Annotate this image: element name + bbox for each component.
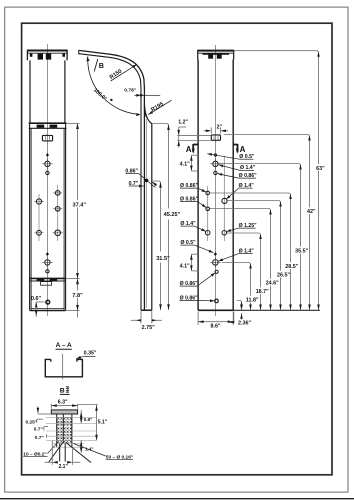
dim 4.1 upper (191, 155, 198, 171)
dim 2.36 (229, 312, 242, 323)
svg-text:26.5": 26.5" (277, 272, 290, 278)
rear cap tabs (203, 53, 230, 55)
callout D0.86 right (218, 173, 258, 179)
dim 2.1 (45, 441, 81, 465)
svg-text:4.1": 4.1" (180, 162, 190, 168)
rear hole left 2 (206, 207, 210, 211)
front hole small (46, 171, 49, 174)
front hole crosshair low (42, 257, 52, 267)
rear diamond (214, 252, 217, 256)
dim 2.75 below side view (131, 311, 162, 324)
side S-bend R195 to channel (144, 104, 151, 310)
svg-text:45.25": 45.25" (164, 212, 181, 218)
svg-text:A: A (186, 145, 192, 154)
angle arc 100 deg (88, 57, 140, 115)
svg-text:4.1": 4.1" (180, 264, 190, 270)
side hidden centerline (145, 119, 147, 308)
ordinate arrows at baseline (240, 305, 320, 311)
callout D0.86 left 1 (180, 183, 206, 192)
front hole right 2 (53, 207, 62, 212)
svg-text:0.78": 0.78" (124, 88, 136, 94)
inner border frame (22, 23, 332, 475)
svg-text:2.36": 2.36" (238, 321, 251, 327)
svg-text:63": 63" (316, 166, 325, 172)
front pole body edges (30, 60, 65, 123)
A-A channel outline (45, 359, 82, 376)
side view bottom edge (141, 309, 152, 311)
dim 0.6 (36, 302, 44, 317)
dim 6.3 (51, 404, 77, 409)
side arm outline (79, 50, 152, 310)
svg-text:0.25": 0.25" (26, 419, 38, 425)
callout D0.5 right top (207, 154, 255, 160)
rear cap (198, 50, 234, 59)
B plate (51, 410, 77, 414)
B body verticals (57, 414, 72, 447)
rear hole small low (215, 270, 218, 273)
front view centerline (46, 44, 48, 316)
front bottom notch (37, 279, 45, 281)
svg-text:2.1": 2.1" (59, 464, 69, 470)
R150 leader arrow (111, 64, 137, 81)
dim 4.1 lower (191, 254, 198, 271)
svg-text:11.8": 11.8" (246, 298, 259, 304)
R150 label (109, 69, 123, 81)
front hole small low (46, 270, 49, 273)
svg-text:5.1": 5.1" (98, 420, 108, 426)
svg-text:0.6": 0.6" (31, 296, 41, 302)
callout D0.86 left 4 (180, 295, 215, 301)
section A-A cut marks (193, 144, 237, 152)
svg-text:42": 42" (307, 209, 316, 215)
front hole column centerlines (38, 194, 40, 241)
B left dim labels (37, 406, 51, 438)
rear hole crosshair 1 (210, 159, 220, 169)
callout D1.4 left (180, 221, 206, 232)
callout D1.4 right 1 (219, 165, 256, 171)
rear slot (211, 135, 220, 140)
B leader from 10-D label (48, 442, 59, 454)
callout D1.25 right (226, 223, 257, 232)
svg-text:8.6": 8.6" (211, 323, 221, 329)
rear hole left 1 (206, 191, 210, 195)
callout D1.4 right low (218, 248, 254, 261)
front hole small diamond top (46, 153, 49, 157)
svg-text:2.75": 2.75" (142, 325, 155, 331)
front bracket top band (29, 123, 67, 128)
R195 leader arrow (148, 100, 171, 114)
dim 2 slot (204, 127, 229, 133)
front cap tabs (38, 54, 43, 60)
side hole dot (145, 179, 149, 183)
dim 0.78 top (124, 88, 160, 96)
callout D0.5 left (180, 240, 213, 253)
front hole left 1 (34, 199, 44, 204)
rear centerline (214, 45, 216, 316)
rear pole body (198, 59, 233, 310)
ordinate hook dots (240, 51, 320, 306)
dim 45.25 (152, 124, 169, 311)
label B with arrow (94, 59, 104, 72)
dim 1.2 slot height (177, 127, 211, 148)
dim 8.6 below rear (198, 312, 233, 326)
svg-text:18.7": 18.7" (256, 289, 269, 295)
callout D0.86 left 3 (180, 273, 216, 287)
rear hole small 1 (214, 171, 217, 174)
svg-text:7.8": 7.8" (72, 293, 83, 299)
B gray ext lines (46, 417, 97, 447)
svg-text:0.7": 0.7" (34, 427, 43, 433)
front hole diamond 2 (46, 252, 49, 256)
label 0.86 side (125, 168, 155, 187)
rear tiny hole top (214, 154, 216, 156)
svg-text:0.6": 0.6" (84, 417, 93, 422)
svg-text:B: B (99, 61, 104, 70)
B hole grid (57, 418, 71, 443)
front slot (42, 135, 52, 141)
A-A centerline (62, 354, 64, 380)
svg-text:1.2": 1.2" (178, 119, 188, 125)
svg-text:2": 2" (217, 124, 223, 130)
callout D1.4 right 2 (226, 183, 254, 199)
svg-text:1.4": 1.4" (85, 446, 94, 451)
front hole crosshair mid (42, 159, 52, 169)
rear hole column centerlines (207, 186, 209, 241)
ordinate labels (245, 164, 325, 304)
front hole bottom (46, 300, 50, 304)
rear hole crosshair low (210, 257, 220, 267)
svg-text:24.6": 24.6" (266, 281, 279, 287)
B right dim lines (78, 405, 98, 453)
svg-text:28.5": 28.5" (285, 264, 298, 270)
svg-text:37.4": 37.4" (73, 202, 87, 208)
svg-text:B: B (60, 387, 65, 394)
R195 label (150, 101, 165, 113)
rear holes row 233 (205, 231, 210, 236)
dim 37.4 arrows (76, 123, 79, 129)
front hole right 3 (53, 230, 63, 236)
rear hole right big (222, 198, 227, 203)
label 0.7 side (129, 181, 144, 187)
front view top cap (27, 50, 67, 60)
svg-text:A: A (240, 145, 246, 154)
svg-text:0.35": 0.35" (84, 350, 97, 356)
baseline extension right (233, 309, 320, 311)
callout D0.86 left 2 (180, 196, 206, 207)
svg-text:A – A: A – A (56, 342, 72, 349)
B leader from 50-D label (73, 444, 105, 457)
rear hole bottom (215, 299, 219, 303)
dim 31.5 (152, 181, 161, 310)
label 7.8 (72, 291, 83, 298)
page bottom scan line (0, 498, 354, 500)
front bracket side edges (30, 123, 66, 310)
ordinate dim lines right (210, 51, 319, 310)
svg-text:6.3": 6.3" (58, 399, 68, 405)
front bracket bottom band (30, 278, 66, 310)
dim 37.4 extension lines (66, 123, 80, 317)
label 37.4 (72, 200, 87, 207)
svg-text:35.5": 35.5" (295, 248, 308, 254)
svg-text:0.7": 0.7" (35, 435, 44, 441)
front hole right 1 (53, 191, 62, 196)
front hole left 3 (34, 230, 43, 235)
svg-text:31.5": 31.5" (156, 256, 170, 262)
B V-legs (49, 443, 91, 463)
